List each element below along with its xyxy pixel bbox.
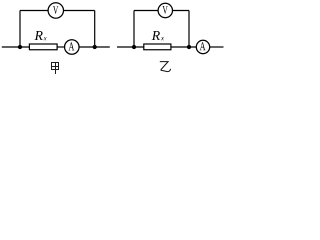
wire: left circuit between resistor and ammeter bbox=[57, 46, 65, 48]
resistor R_x (right) bbox=[144, 44, 171, 50]
wire: right circuit right vertical bbox=[188, 11, 190, 48]
node: left circuit left junction bbox=[18, 45, 22, 49]
wire: left circuit right vertical bbox=[94, 11, 96, 48]
ammeter A2 circle bbox=[196, 40, 209, 53]
wire: right circuit top right segment bbox=[173, 10, 190, 12]
wire: left circuit top right segment bbox=[64, 10, 95, 12]
wire: left circuit bottom right segment bbox=[79, 46, 110, 48]
node: right circuit left junction bbox=[132, 45, 136, 49]
wire: right circuit top left segment bbox=[134, 10, 158, 12]
label 甲 (circuit A caption, drawn) bbox=[51, 62, 59, 74]
ammeter A1 circle bbox=[65, 40, 80, 55]
wire: left circuit left vertical bbox=[19, 11, 21, 48]
wire: right circuit left vertical bbox=[133, 11, 135, 48]
wire: right circuit between resistor and junction bbox=[171, 46, 196, 48]
node: left circuit right junction bbox=[93, 45, 97, 49]
label R (left resistor R_x) bbox=[35, 31, 43, 40]
label A (ammeter A1) bbox=[69, 42, 75, 50]
node: right circuit right junction bbox=[187, 45, 191, 49]
wire: left circuit bottom lead left bbox=[2, 46, 30, 48]
label x subscript (left R_x) bbox=[44, 37, 47, 40]
label A (ammeter A2) bbox=[200, 42, 206, 50]
voltmeter V1 circle bbox=[48, 3, 63, 18]
resistor R_x (left) bbox=[29, 44, 57, 50]
label R (right resistor R_x) bbox=[152, 31, 160, 40]
wire: left circuit top left segment bbox=[20, 10, 48, 12]
wire: right circuit bottom right lead bbox=[210, 46, 224, 48]
label 乙 (circuit B caption, drawn) bbox=[160, 62, 171, 72]
label V (voltmeter V1) bbox=[53, 6, 58, 14]
wire: right circuit bottom lead left bbox=[117, 46, 144, 48]
voltmeter V2 circle bbox=[158, 3, 172, 17]
label x subscript (right R_x) bbox=[161, 37, 164, 40]
label V (voltmeter V2) bbox=[163, 6, 168, 14]
